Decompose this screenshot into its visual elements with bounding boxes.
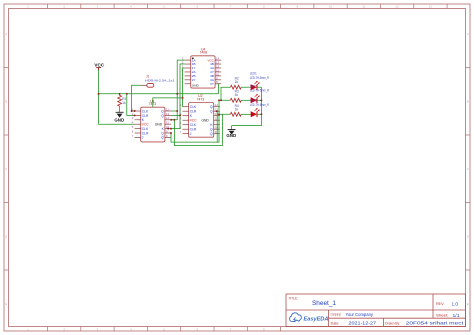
wire bus drop to U1 pin2 xyxy=(127,94,135,116)
svg-text:B: B xyxy=(467,99,469,103)
IC U2 7473 xyxy=(180,94,220,137)
svg-text:2021-12-27: 2021-12-27 xyxy=(349,321,377,326)
svg-text:1k: 1k xyxy=(122,101,126,105)
svg-text:CLK: CLK xyxy=(142,127,149,131)
svg-text:13: 13 xyxy=(166,112,170,116)
connector J1 xyxy=(142,75,175,88)
svg-text:CLK: CLK xyxy=(190,105,197,109)
resistor R4 xyxy=(230,104,250,116)
svg-text:GND: GND xyxy=(155,123,163,127)
junction dots xyxy=(98,93,263,134)
svg-text:TITLE:: TITLE: xyxy=(289,297,299,301)
LED2 xyxy=(250,85,270,104)
LED1 xyxy=(250,72,270,91)
frame ticks bottom xyxy=(48,327,281,332)
svg-text:A: A xyxy=(5,32,7,36)
svg-text:Drawn By:: Drawn By: xyxy=(385,321,400,325)
svg-text:CLK: CLK xyxy=(142,109,149,113)
svg-text:2Y: 2Y xyxy=(192,78,196,82)
ground GND2 xyxy=(226,126,236,138)
U1 left pins xyxy=(135,111,141,137)
svg-text:1k: 1k xyxy=(235,80,239,84)
svg-text:11: 11 xyxy=(215,117,218,121)
wire U4 pin2 down to U1 Q2 xyxy=(171,64,185,129)
svg-text:GND: GND xyxy=(226,133,236,138)
wire U4 out to R2 xyxy=(221,87,230,100)
U4 pin numbers xyxy=(182,57,220,85)
wire VCC down to U1 pin4 xyxy=(99,94,135,124)
wire over U1 top xyxy=(153,98,183,107)
resistor R1 xyxy=(118,94,127,113)
U2 right pins xyxy=(214,107,220,134)
wire J1 to U1 pin1 xyxy=(132,85,142,111)
svg-text:Q: Q xyxy=(161,114,164,118)
wire U1 Q1 to vertical xyxy=(171,110,177,112)
svg-text:VCC: VCC xyxy=(190,119,198,123)
U4 right pins xyxy=(215,60,221,84)
svg-text:11: 11 xyxy=(166,121,169,125)
svg-text:7473: 7473 xyxy=(197,98,205,102)
svg-text:REV:: REV: xyxy=(436,302,445,306)
VCC net flag xyxy=(94,63,104,70)
U4 pin names xyxy=(192,58,197,82)
svg-text:14: 14 xyxy=(215,112,219,116)
svg-text:Date:: Date: xyxy=(331,321,340,325)
svg-text:1k: 1k xyxy=(235,108,239,112)
svg-text:Q: Q xyxy=(210,128,213,132)
svg-text:Q: Q xyxy=(161,131,164,135)
U1 pin names xyxy=(142,109,149,139)
svg-text:Q: Q xyxy=(161,136,164,140)
svg-text:E: E xyxy=(5,302,7,306)
EasyEDA logo xyxy=(290,313,329,323)
U4 left pins xyxy=(185,60,191,84)
U1 pin numbers xyxy=(132,107,170,137)
svg-text:Sheet_1: Sheet_1 xyxy=(312,301,337,307)
svg-text:Q: Q xyxy=(210,105,213,109)
svg-text:C: C xyxy=(5,167,7,171)
IC U1 7473 xyxy=(132,99,171,142)
svg-text:Your Company: Your Company xyxy=(346,312,374,317)
svg-text:GND: GND xyxy=(192,84,200,88)
svg-text:GND: GND xyxy=(201,119,209,123)
resistor R3 xyxy=(230,90,250,103)
svg-text:D: D xyxy=(467,234,469,238)
svg-text:CLK: CLK xyxy=(190,123,197,127)
wire U1 Q1b to vertical xyxy=(171,114,180,116)
svg-text:GND: GND xyxy=(114,118,124,123)
svg-text:12: 12 xyxy=(166,107,170,111)
svg-text:VCC: VCC xyxy=(94,63,104,68)
LED3 xyxy=(250,99,270,118)
wire loop B : U1 out to R4 xyxy=(171,114,230,145)
ground GND1 xyxy=(114,112,124,122)
svg-text:CLR: CLR xyxy=(142,131,149,135)
svg-text:Sheet:: Sheet: xyxy=(436,314,449,318)
frame ticks left xyxy=(4,68,9,271)
svg-text:LED-TH-5mm_R: LED-TH-5mm_R xyxy=(250,76,270,80)
svg-text:1.0: 1.0 xyxy=(452,301,459,306)
U2 pin names xyxy=(190,105,197,136)
svg-text:20F054 srihari mect: 20F054 srihari mect xyxy=(406,321,465,326)
wire main horizontal bus xyxy=(99,93,219,95)
svg-text:D: D xyxy=(5,234,7,238)
wire U4 pin3 down to U2 CLK xyxy=(183,68,185,107)
svg-text:A: A xyxy=(467,32,469,36)
U2 left pins xyxy=(183,107,189,134)
svg-text:Q: Q xyxy=(161,109,164,113)
svg-text:10: 10 xyxy=(215,126,219,130)
frame ticks right xyxy=(466,68,471,271)
svg-text:14: 14 xyxy=(166,116,170,120)
wire R4 cross link xyxy=(219,113,222,115)
U2 pin numbers xyxy=(180,103,219,134)
svg-text:LED-TH-5mm_R: LED-TH-5mm_R xyxy=(250,89,270,93)
wire LED cathodes down to GND2 xyxy=(232,87,262,125)
svg-text:CLR: CLR xyxy=(190,128,197,132)
svg-text:3Y: 3Y xyxy=(210,82,214,86)
title block xyxy=(286,294,466,327)
svg-text:7408: 7408 xyxy=(200,50,208,54)
svg-text:Q: Q xyxy=(210,110,213,114)
wire VCC vertical xyxy=(98,70,100,94)
svg-text:Company:: Company: xyxy=(331,313,342,317)
wire U4 pin1 down to U1 Q xyxy=(171,60,185,120)
resistor R2 xyxy=(230,76,250,89)
wire bus to U4 pin8 xyxy=(218,84,221,94)
svg-text:12: 12 xyxy=(215,103,219,107)
U1 right pins xyxy=(165,111,171,137)
svg-text:1/1: 1/1 xyxy=(453,313,461,318)
IC U4 7408 xyxy=(182,48,221,89)
svg-text:EasyEDA: EasyEDA xyxy=(304,317,329,323)
svg-text:C: C xyxy=(467,167,469,171)
svg-text:VCC: VCC xyxy=(142,123,150,127)
svg-text:CLR: CLR xyxy=(190,110,197,114)
svg-text:Q: Q xyxy=(210,132,213,136)
svg-text:CLR: CLR xyxy=(142,114,149,118)
svg-text:HDR-M-2.54_1x1: HDR-M-2.54_1x1 xyxy=(145,78,175,82)
svg-text:B: B xyxy=(5,99,7,103)
wire U2 right up xyxy=(216,111,218,142)
svg-text:1k: 1k xyxy=(235,93,239,97)
svg-text:E: E xyxy=(467,302,469,306)
frame ticks top xyxy=(48,4,448,9)
wire loop A : U1 out to R3 xyxy=(171,100,230,142)
svg-text:LED-TH-5mm_R: LED-TH-5mm_R xyxy=(250,103,270,107)
